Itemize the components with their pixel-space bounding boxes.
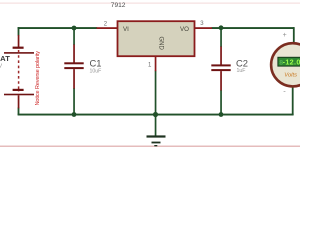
battery label BAT bbox=[0, 54, 10, 63]
svg-text:VO: VO bbox=[180, 26, 189, 33]
svg-text:10uF: 10uF bbox=[90, 69, 102, 75]
junction C2 top bbox=[219, 25, 224, 30]
battery value 12V bbox=[0, 64, 2, 70]
capacitor C2 bbox=[211, 47, 230, 91]
svg-text:+: + bbox=[283, 32, 287, 39]
svg-text:C1: C1 bbox=[90, 57, 102, 68]
junction C2 bottom bbox=[219, 112, 224, 117]
capacitor C1 bbox=[64, 45, 83, 89]
capacitor C1 label bbox=[90, 57, 102, 68]
svg-text:Volts: Volts bbox=[284, 72, 297, 78]
wire C1 bottom vertical bbox=[73, 88, 75, 115]
capacitor C2 value 1uF bbox=[237, 68, 246, 74]
pin GND stub bbox=[155, 56, 157, 71]
wire IC GND pin to rail bbox=[155, 71, 157, 116]
voltmeter display bbox=[278, 57, 308, 66]
capacitor C1 value 10uF bbox=[90, 69, 102, 75]
pin label VI bbox=[123, 26, 129, 33]
voltmeter Volts label bbox=[284, 72, 297, 78]
wire voltmeter bottom vertical bbox=[292, 86, 294, 115]
pin number 2 bbox=[104, 21, 108, 27]
wire bottom rail bbox=[18, 114, 294, 116]
wire battery top vertical bbox=[18, 27, 20, 35]
svg-text:GND: GND bbox=[158, 37, 164, 51]
op-amp U1 regulator 7912 body bbox=[118, 21, 195, 56]
battery BAT bbox=[4, 35, 34, 108]
voltmeter minus terminal mark bbox=[283, 87, 286, 96]
wire C1 top vertical bbox=[73, 28, 75, 45]
pin number 3 bbox=[200, 21, 204, 27]
svg-text:7912: 7912 bbox=[111, 2, 126, 9]
pin VO stub bbox=[195, 27, 213, 29]
sheet border line bottom bbox=[0, 146, 300, 148]
svg-text:BAT: BAT bbox=[0, 54, 10, 63]
pin label GND rotated bbox=[158, 37, 164, 51]
junction ground node bbox=[153, 112, 158, 117]
wire battery top to C1 junction bbox=[18, 27, 98, 29]
svg-text:-12.0: -12.0 bbox=[283, 58, 300, 67]
pin label VO bbox=[180, 26, 189, 33]
battery warning text Notice Reverse polarity bbox=[35, 51, 41, 106]
wire VO to voltmeter top bbox=[212, 27, 295, 29]
voltmeter plus terminal mark bbox=[283, 32, 287, 39]
wire ground stub vertical bbox=[155, 114, 157, 136]
capacitor C2 label bbox=[236, 57, 248, 68]
junction C1 bottom bbox=[72, 112, 77, 117]
pin VI stub bbox=[97, 27, 118, 29]
wire voltmeter top vertical bbox=[293, 27, 295, 44]
wire C2 top vertical bbox=[220, 28, 222, 47]
wire battery bottom vertical bbox=[18, 108, 20, 116]
7912 title label bbox=[111, 2, 126, 9]
svg-text:VI: VI bbox=[123, 26, 129, 33]
voltmeter body bbox=[271, 43, 314, 86]
sheet border line top bbox=[0, 3, 300, 4]
svg-text:Notice Reverse polarity: Notice Reverse polarity bbox=[35, 51, 41, 106]
pin number 1 bbox=[148, 62, 152, 68]
wire C2 bottom vertical bbox=[220, 90, 222, 115]
svg-text:C2: C2 bbox=[236, 57, 248, 68]
ground bbox=[147, 135, 166, 146]
junction C1 top bbox=[72, 26, 77, 31]
svg-text:1uF: 1uF bbox=[237, 68, 246, 74]
